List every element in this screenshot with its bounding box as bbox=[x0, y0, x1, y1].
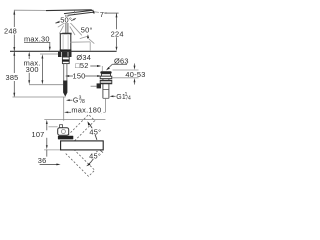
svg-text:7°: 7° bbox=[100, 10, 108, 19]
drain side outlet bbox=[97, 83, 101, 88]
label 7 deg bbox=[95, 11, 99, 14]
svg-text:150: 150 bbox=[72, 72, 85, 81]
extension line plan body top bbox=[49, 126, 58, 128]
extension line spout bottom bbox=[44, 149, 60, 151]
label G 1 1/4 bbox=[110, 95, 114, 97]
plan body bar bbox=[58, 136, 73, 140]
dimension max.180 bbox=[64, 111, 105, 113]
leader max.30 bbox=[24, 42, 51, 51]
handle arc lines bbox=[58, 22, 82, 35]
leader square52 bbox=[90, 65, 100, 67]
extension line 224 top bbox=[107, 12, 119, 14]
drain tube lines bbox=[103, 88, 109, 90]
svg-text:385: 385 bbox=[5, 73, 18, 82]
faucet base band bbox=[60, 49, 72, 51]
svg-text:300: 300 bbox=[26, 65, 39, 74]
plan body inner bbox=[61, 130, 65, 134]
dimension shank line bbox=[41, 54, 43, 84]
plan body bbox=[58, 128, 69, 136]
faucet spout bottom edge bbox=[68, 12, 93, 15]
supply hoses bbox=[63, 81, 67, 93]
leader bottom bbox=[40, 163, 58, 165]
arc 45 deg bottom bbox=[88, 151, 97, 165]
dashed swivel up bbox=[65, 114, 95, 144]
svg-text:36: 36 bbox=[38, 156, 47, 165]
dimension 36 bbox=[46, 150, 48, 157]
dimension max.300 line bbox=[28, 52, 30, 85]
drain tube bbox=[102, 79, 104, 99]
faucet centerline bbox=[63, 97, 65, 121]
drain centerline bbox=[105, 98, 107, 112]
svg-text:□52: □52 bbox=[75, 61, 88, 70]
faucet lever top bbox=[46, 9, 92, 12]
label 50 deg (handle) bbox=[60, 17, 71, 23]
svg-text:45°: 45° bbox=[89, 152, 101, 161]
lock washer bbox=[62, 57, 69, 64]
drain flange bbox=[100, 71, 111, 74]
svg-text:50°: 50° bbox=[60, 16, 72, 25]
deck line bbox=[10, 50, 117, 52]
plan spout bbox=[61, 141, 104, 150]
svg-text:max.180: max.180 bbox=[71, 105, 101, 114]
plan lever tip bbox=[60, 125, 63, 128]
dimension 107 bbox=[46, 120, 48, 150]
angle 50 deg arc arrows bbox=[55, 21, 60, 23]
dimension 150 bbox=[65, 75, 101, 77]
svg-text:107: 107 bbox=[31, 130, 44, 139]
mounting nut bbox=[58, 52, 72, 57]
svg-text:224: 224 bbox=[111, 29, 124, 38]
threaded shank bbox=[63, 64, 65, 81]
drain nut bbox=[100, 76, 112, 78]
label 50 deg #2 bbox=[80, 26, 91, 33]
dashed swivel down bbox=[65, 147, 95, 177]
svg-text:40-53: 40-53 bbox=[125, 70, 145, 79]
svg-text:45°: 45° bbox=[89, 128, 101, 137]
svg-text:/8: /8 bbox=[80, 99, 85, 105]
arc 45 deg top bbox=[89, 124, 97, 140]
faucet pivot tick bbox=[74, 10, 76, 13]
svg-text:/4: /4 bbox=[126, 95, 131, 101]
label 224 bbox=[111, 30, 123, 37]
svg-text:50°: 50° bbox=[81, 25, 93, 34]
faucet spout top edge bbox=[64, 10, 93, 13]
label 45 deg top bbox=[89, 128, 101, 135]
label G 3/8 bbox=[66, 99, 70, 101]
angle 50 deg #2 marks bbox=[80, 36, 88, 38]
svg-text:max.30: max.30 bbox=[24, 34, 50, 43]
svg-text:248: 248 bbox=[4, 27, 17, 36]
extension line hose end bbox=[13, 96, 66, 98]
reference line hose ends bbox=[29, 84, 63, 86]
faucet body bbox=[62, 33, 71, 35]
extension line spout top bbox=[14, 9, 46, 11]
extension line plan rear bbox=[44, 119, 105, 121]
faucet spout tip bbox=[92, 10, 94, 14]
dimension 385 line bbox=[13, 52, 15, 97]
extension line under nut bbox=[40, 53, 58, 55]
faucet neck bbox=[65, 15, 67, 34]
dimension 248 line bbox=[13, 10, 15, 51]
dimension 224 line bbox=[116, 13, 118, 51]
drain ring bbox=[100, 80, 112, 84]
label 45 deg bottom bbox=[89, 152, 101, 159]
dimension 40-53 bbox=[113, 69, 139, 71]
